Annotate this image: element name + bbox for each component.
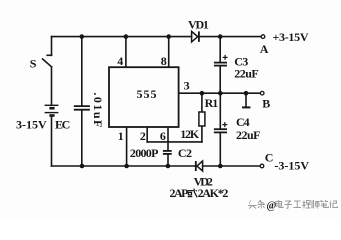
wire C3 branch lower <box>219 66 221 93</box>
svg-text:A: A <box>260 42 269 56</box>
capacitor C3 plates <box>214 63 227 66</box>
svg-text:22uF: 22uF <box>234 66 258 80</box>
wire C4 branch lower <box>219 133 221 166</box>
wire pin 8 <box>168 37 170 68</box>
ground bar at node B <box>242 106 250 108</box>
junction bottom rail / .01uF branch <box>80 164 85 169</box>
capacitor C4 plus sign <box>222 122 227 127</box>
label VD2 type chinese char huo <box>188 189 197 198</box>
wire left branch upper (to switch) <box>51 37 53 56</box>
wire connector pins 2-6-R1 <box>147 141 202 143</box>
wire battery to bottom rail <box>51 116 53 166</box>
wire .01uF cap branch lower <box>81 111 83 167</box>
wire top rail left segment <box>52 36 192 38</box>
svg-text:S: S <box>30 57 37 71</box>
svg-text:-3-15V: -3-15V <box>274 159 309 173</box>
watermark toutiao at electronics engineer notes <box>248 200 265 209</box>
svg-text:EC: EC <box>55 118 70 132</box>
svg-text:2AK*2: 2AK*2 <box>198 186 229 200</box>
junction top rail / .01uF branch <box>80 34 85 39</box>
capacitor C2 plates <box>163 151 172 154</box>
wire pin 4 <box>125 37 127 68</box>
switch S contact tick <box>47 54 51 56</box>
wire pin 1 <box>126 127 128 166</box>
svg-text:VD1: VD1 <box>188 18 209 32</box>
svg-text:2000P: 2000P <box>130 146 158 160</box>
wire C4 branch upper <box>219 93 221 128</box>
svg-text:6: 6 <box>160 129 166 143</box>
wire pin 3 output to terminal B <box>179 92 261 94</box>
wire bottom rail right segment <box>203 165 261 167</box>
op IC 555 U1 body <box>109 67 179 127</box>
wire switch to battery <box>51 67 53 105</box>
svg-text:R1: R1 <box>205 96 219 110</box>
junction bottom rail / C2 branch <box>166 164 171 169</box>
svg-text:@: @ <box>267 201 277 212</box>
svg-text:C2: C2 <box>178 146 192 160</box>
switch S blade <box>43 59 52 67</box>
terminal B circle <box>260 91 264 95</box>
capacitor C3 plus sign <box>223 55 228 60</box>
wire top rail right segment <box>199 36 261 38</box>
wire R1 top lead <box>201 93 203 112</box>
svg-text:8: 8 <box>161 54 167 68</box>
terminal A circle <box>261 35 265 39</box>
wire .01uF cap branch upper <box>81 37 83 106</box>
junction top rail / pin 8 <box>166 34 171 39</box>
junction bottom rail / C4 branch <box>218 164 223 169</box>
wire pin 6 upper <box>167 127 169 150</box>
junction output wire / C3-C4 branch <box>218 91 223 96</box>
junction output wire / R1 <box>200 91 205 96</box>
wire ground stub at node B <box>245 93 247 106</box>
wire pin 2 <box>146 127 148 142</box>
wire bottom rail left segment <box>52 165 196 167</box>
battery EC plates <box>45 105 59 115</box>
capacitor C4 plates <box>214 129 227 132</box>
svg-text:22uF: 22uF <box>236 128 260 142</box>
junction output wire / ground stub node B <box>244 91 249 96</box>
junction bottom rail / pin 1 <box>124 164 129 169</box>
junction top rail / pin 4 <box>124 34 129 39</box>
wire R1 bottom lead <box>201 126 203 142</box>
svg-text:1: 1 <box>118 129 124 143</box>
svg-text:3-15V: 3-15V <box>16 118 47 132</box>
svg-text:2AP: 2AP <box>170 186 189 200</box>
svg-text:4: 4 <box>117 54 123 68</box>
wire pin 6 through C2 to bottom rail <box>167 155 169 166</box>
wire C3 branch upper <box>219 37 221 62</box>
capacitor .01uF plates <box>74 106 90 110</box>
svg-text:555: 555 <box>137 87 158 101</box>
svg-text:.01uF: .01uF <box>91 92 105 129</box>
svg-text:12K: 12K <box>180 127 200 141</box>
svg-text:B: B <box>262 96 270 110</box>
terminal C circle <box>260 164 264 168</box>
svg-text:+3-15V: +3-15V <box>273 30 309 44</box>
svg-text:C: C <box>265 151 274 165</box>
junction top rail / C3 branch <box>218 34 223 39</box>
diode VD2 <box>196 161 203 171</box>
svg-text:2: 2 <box>140 129 146 143</box>
svg-text:3: 3 <box>184 78 190 92</box>
resistor R1 body <box>199 112 205 126</box>
diode VD1 <box>192 31 199 42</box>
svg-text:C4: C4 <box>236 115 250 129</box>
